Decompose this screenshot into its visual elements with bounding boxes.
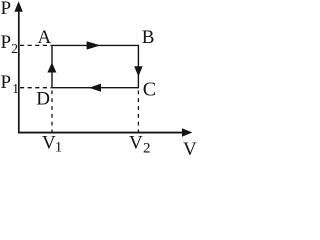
svg-text:D: D [36, 89, 50, 110]
svg-text:1: 1 [55, 140, 63, 156]
svg-text:2: 2 [143, 141, 151, 156]
svg-text:V: V [183, 139, 197, 155]
svg-text:C: C [143, 78, 156, 100]
svg-text:P: P [1, 72, 12, 93]
svg-text:P: P [1, 0, 12, 19]
svg-text:1: 1 [12, 81, 19, 96]
svg-text:B: B [142, 27, 155, 48]
svg-text:P: P [1, 32, 12, 53]
svg-text:V: V [129, 132, 143, 153]
svg-text:A: A [38, 27, 52, 48]
svg-text:2: 2 [11, 41, 18, 56]
